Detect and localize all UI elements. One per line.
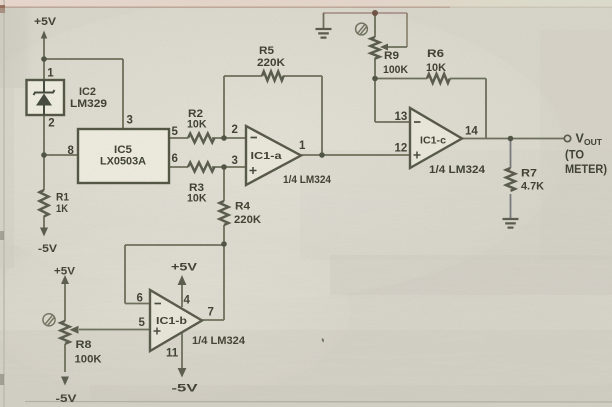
wire IC1-b loop left (124, 245, 126, 304)
resistor R5 (262, 72, 284, 81)
wire R8 top (64, 282, 66, 321)
wire R9 bottom stub (374, 58, 376, 79)
ink speck (322, 338, 324, 343)
potentiometer R8 (61, 321, 70, 344)
wire R5 top left (224, 75, 262, 77)
bottom shade band (0, 330, 612, 407)
wire IC5 pin3 vertical (122, 59, 124, 129)
wire R6 to output branch (450, 78, 486, 80)
node junction R9 bottom (372, 76, 378, 82)
op-amp U1a IC1-a (246, 126, 301, 185)
wire IC5 pin5 to R2 (169, 137, 188, 139)
wire R4 top leg (223, 167, 225, 201)
scan streaks overlay (0, 175, 612, 407)
IC1-a minus input mark (251, 137, 258, 139)
left edge mark middle (0, 231, 4, 240)
wire IC1-b loop top (125, 244, 224, 246)
node junction +5V branch (41, 56, 47, 62)
wire IC1-c pin13 stub (375, 121, 410, 123)
op-amp U1c IC1-c (410, 108, 462, 168)
wire R3 to IC1-a pin3 (212, 166, 246, 168)
op-amp U1b IC1-b (150, 290, 202, 351)
node junction R9 top (372, 10, 378, 16)
resistor R6 (427, 74, 450, 83)
wire R7 top (510, 139, 512, 169)
node junction R2/R5 (221, 135, 227, 141)
wire IC1-c pin13 vertical (374, 79, 376, 123)
left crease line (3, 0, 5, 407)
wire IC1-a output to IC1-c pin12 (301, 154, 410, 156)
top pink band (0, 0, 612, 7)
wire wiper loop right (406, 13, 408, 47)
node junction IC2/R1/pin8 (41, 152, 47, 158)
wire IC5 pin8 (44, 154, 78, 156)
resistor R4 (220, 201, 229, 225)
wire R2 to IC1-a pin2 (212, 137, 246, 139)
potentiometer R9 (371, 37, 380, 59)
IC1-a plus input mark (250, 167, 257, 174)
wire R9 top to wiper corner (375, 12, 407, 14)
wire ground stub top middle (323, 13, 325, 28)
node junction R4/IC1-b loop (221, 241, 227, 247)
left edge mark bottom (0, 374, 4, 385)
wire R5 left leg (223, 76, 225, 138)
bottom caption rule (25, 401, 612, 404)
wire R7 bottom (510, 194, 512, 218)
wire R8 bottom (64, 344, 66, 372)
+5V arrow top left (41, 31, 47, 39)
wire R4 bottom leg (223, 225, 225, 245)
shade top-left corner (0, 8, 34, 88)
wire junction A to IC5 pin3 horizontal (44, 58, 123, 60)
IC1-c minus input mark (414, 121, 421, 123)
IC1-b minus input mark (155, 303, 162, 305)
R8 wiper arrow (70, 326, 79, 334)
top ground symbol (316, 29, 332, 38)
wire IC5 pin6 to R3 (169, 166, 188, 168)
resistor R1 (40, 190, 49, 216)
wire R5 top right (283, 75, 322, 77)
wire R1 to -5V arrow (43, 216, 45, 230)
shade right mid band (330, 255, 612, 295)
bottom right ground symbol (503, 219, 519, 228)
wire ground to R9 top (323, 12, 375, 14)
wire +5V stub to IC2 (43, 37, 45, 80)
zener diode IC2 box (27, 80, 65, 115)
resistor R2 (188, 134, 214, 143)
-5V arrow R8 (61, 377, 69, 386)
VOUT terminal circle (564, 135, 570, 141)
top band rule (0, 6, 450, 8)
wire R9 top stub (374, 13, 376, 37)
wire IC1-b output stub (202, 319, 224, 321)
node junction output/R7 (508, 136, 514, 142)
IC1-c plus input mark (414, 152, 421, 159)
R8 adjust mark (43, 314, 55, 326)
wire IC1-c output to VOUT (462, 138, 564, 140)
resistor R3 (188, 163, 214, 172)
IC1-b plus input mark (154, 328, 161, 335)
node junction R3/R4 (221, 164, 227, 170)
-5V arrow IC1-b pin11 (178, 368, 187, 378)
wire IC1-b loop right (223, 245, 225, 320)
wire R6 branch down (485, 79, 487, 139)
resistor R7 (506, 168, 515, 191)
wire IC1-b pin6 stub (125, 303, 150, 305)
left edge mark top (0, 5, 5, 13)
op-amp bias box IC5 (78, 129, 169, 183)
wire IC1-b pin11 (181, 333, 183, 371)
node junction IC1-a output (319, 152, 325, 158)
+5V arrow IC1-b pin4 (178, 275, 187, 285)
-5V arrow R1 (40, 228, 48, 237)
zener diode symbol (34, 80, 55, 115)
wire R9 junction to R6 (375, 78, 427, 80)
wire IC1-b pin4 (181, 282, 183, 307)
wire wiper horizontal (387, 46, 407, 48)
R9 wiper arrow (380, 44, 388, 51)
wire IC2 pin2 to R1 (43, 115, 45, 190)
wire R5 right leg (321, 76, 323, 155)
R9 adjust mark (356, 23, 368, 35)
+5V arrow R8 (61, 275, 69, 284)
wire R8 wiper to IC1-b pin5 (79, 329, 150, 331)
